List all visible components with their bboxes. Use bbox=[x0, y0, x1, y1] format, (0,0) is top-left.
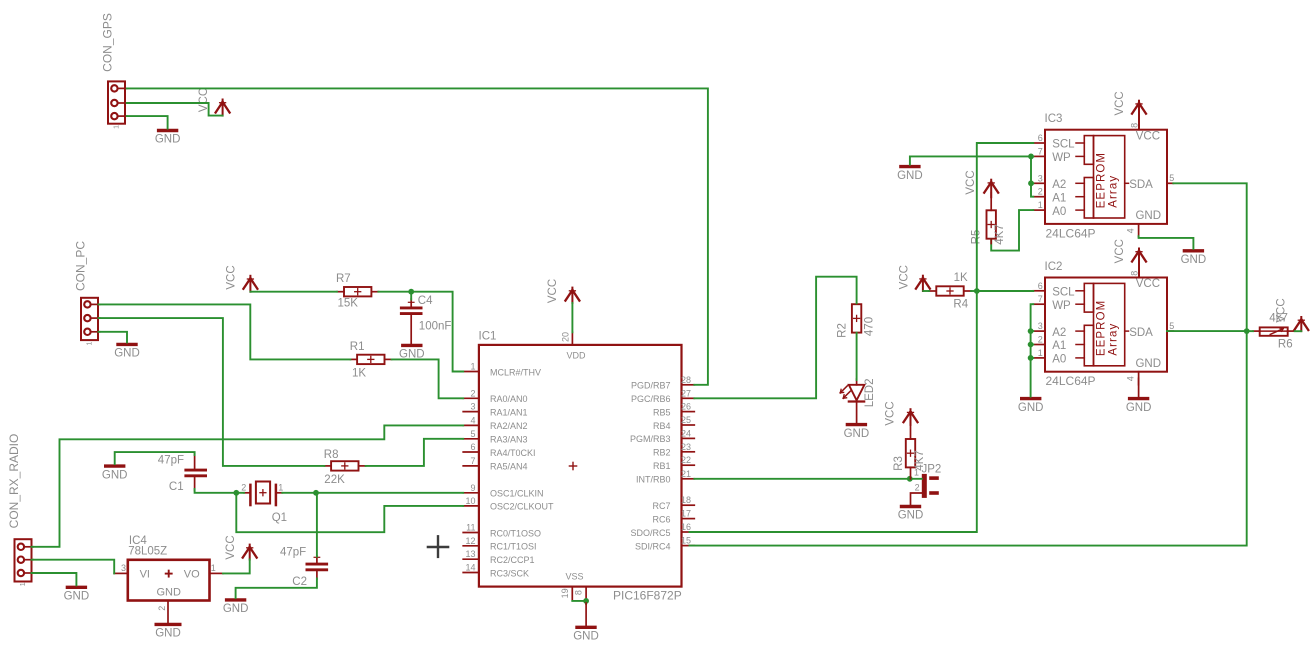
capacitor C2 47pF bbox=[280, 546, 328, 588]
svg-text:1: 1 bbox=[1038, 200, 1043, 210]
svg-text:26: 26 bbox=[681, 402, 691, 412]
svg-text:R2: R2 bbox=[836, 323, 848, 338]
svg-text:RC3/SCK: RC3/SCK bbox=[490, 568, 529, 578]
ground for IC1 VSS bbox=[573, 627, 599, 642]
svg-text:GND: GND bbox=[156, 586, 181, 598]
VCC symbol above R3 bbox=[885, 401, 918, 425]
IC1 pin 23 RB2 bbox=[653, 442, 694, 458]
svg-text:78L05Z: 78L05Z bbox=[128, 546, 167, 558]
node junction SCL/R4 bbox=[974, 288, 980, 294]
svg-text:3: 3 bbox=[1038, 173, 1043, 183]
svg-text:RB4: RB4 bbox=[653, 421, 671, 431]
wire VCC to R7 bbox=[250, 291, 337, 293]
ground for CON_PC pin 3 bbox=[114, 344, 140, 359]
IC1 pin 1 MCLR#/THV bbox=[463, 362, 541, 378]
svg-text:RC0/T1OSO: RC0/T1OSO bbox=[490, 528, 541, 538]
IC2 pin 2 A1 bbox=[1033, 335, 1084, 353]
IC3 pin 6 SCL bbox=[1033, 133, 1084, 151]
IC1 pin 5 RA3/AN3 bbox=[463, 429, 527, 445]
memory IC2 24LC64P body bbox=[1045, 261, 1168, 388]
svg-text:6: 6 bbox=[1038, 133, 1043, 143]
wire R5 bottom stub bbox=[990, 239, 992, 244]
connector CON_RX_RADIO bbox=[7, 434, 33, 587]
wire R6 to VCC bbox=[1295, 330, 1302, 332]
IC3 pin 1 A0 bbox=[1033, 200, 1084, 218]
IC1 pin 28 PGD/RB7 bbox=[631, 375, 694, 391]
svg-text:RA3/AN3: RA3/AN3 bbox=[490, 435, 528, 445]
svg-text:28: 28 bbox=[681, 375, 691, 385]
IC1 pin 17 RC6 bbox=[652, 509, 694, 525]
IC3 pin 4 GND stub bbox=[1126, 224, 1139, 237]
svg-text:PGM/RB3: PGM/RB3 bbox=[630, 434, 671, 444]
IC2 pin 4 GND stub bbox=[1126, 372, 1139, 385]
memory IC3 24LC64P body bbox=[1045, 113, 1168, 240]
wire VCC to R3 top bbox=[910, 422, 912, 439]
svg-text:VCC: VCC bbox=[899, 265, 911, 289]
wire IC1 VSS pins to ground bbox=[572, 598, 589, 626]
svg-text:GND: GND bbox=[114, 348, 140, 360]
capacitor C4 100nF bbox=[400, 295, 452, 343]
IC1 pin 16 SDO/RC5 bbox=[630, 522, 694, 538]
svg-text:16: 16 bbox=[681, 522, 691, 532]
wire R3 bottom to junction bbox=[910, 467, 912, 479]
svg-text:1K: 1K bbox=[352, 368, 366, 380]
svg-text:47pF: 47pF bbox=[280, 546, 306, 558]
wire IC1 PGC/RB6 to R2 bbox=[694, 277, 856, 399]
IC1 pin 15 SDI/RC4 bbox=[635, 536, 694, 552]
svg-text:SDO/RC5: SDO/RC5 bbox=[630, 528, 670, 538]
svg-text:GND: GND bbox=[155, 628, 181, 640]
svg-text:RA2/AN2: RA2/AN2 bbox=[490, 421, 528, 431]
svg-text:VDD: VDD bbox=[567, 350, 587, 360]
svg-text:RC6: RC6 bbox=[652, 514, 670, 524]
IC1 pin 11 RC0/T1OSO bbox=[463, 523, 541, 539]
ground for C1 bbox=[102, 466, 128, 481]
wire IC3 WP to ground bbox=[910, 156, 1033, 164]
ground for IC4 pin 2 bbox=[155, 624, 182, 639]
wire CON_PC pin 1 to R1 bbox=[99, 304, 351, 359]
wire Q1 left to IC1 OSC2/CLKOUT bbox=[236, 493, 463, 532]
svg-text:22: 22 bbox=[681, 455, 691, 465]
capacitor C1 47pF bbox=[158, 454, 207, 493]
svg-text:470: 470 bbox=[863, 317, 875, 336]
IC1 pin 2 RA0/AN0 bbox=[463, 388, 527, 404]
svg-text:24LC64P: 24LC64P bbox=[1046, 374, 1096, 388]
svg-text:SCL: SCL bbox=[1052, 287, 1075, 299]
wire R4 to junction bbox=[971, 290, 977, 292]
svg-text:RA5/AN4: RA5/AN4 bbox=[490, 462, 528, 472]
svg-text:20: 20 bbox=[561, 332, 571, 342]
svg-text:17: 17 bbox=[681, 509, 691, 519]
svg-text:2: 2 bbox=[915, 483, 920, 493]
svg-text:GND: GND bbox=[102, 469, 128, 481]
svg-text:7: 7 bbox=[1038, 146, 1043, 156]
svg-text:RC2/CCP1: RC2/CCP1 bbox=[490, 555, 535, 565]
node junction Q1 right bbox=[313, 490, 319, 496]
IC4 pin 3 VI bbox=[114, 563, 128, 573]
svg-text:5: 5 bbox=[1169, 321, 1174, 331]
wire R1 to IC1 RA0/AN0 bbox=[392, 359, 464, 398]
svg-text:GND: GND bbox=[897, 170, 923, 182]
node junction IC3 WP/A2 bbox=[1028, 154, 1034, 160]
svg-text:RB5: RB5 bbox=[653, 407, 671, 417]
svg-text:1: 1 bbox=[278, 482, 283, 492]
IC3 pin 3 A2 bbox=[1033, 173, 1084, 191]
IC1 pin 18 RC7 bbox=[652, 495, 694, 511]
IC3 pin 2 A1 bbox=[1033, 187, 1084, 205]
resistor R2 470 bbox=[836, 304, 875, 338]
IC1 pin 8 VSS stub bbox=[573, 587, 586, 601]
svg-text:Array: Array bbox=[1107, 175, 1119, 208]
svg-text:2: 2 bbox=[1038, 335, 1043, 345]
svg-text:15K: 15K bbox=[338, 298, 359, 310]
wire VCC to R5 top bbox=[990, 193, 992, 211]
svg-text:R6: R6 bbox=[1278, 338, 1293, 350]
svg-text:RA4/T0CKI: RA4/T0CKI bbox=[490, 448, 536, 458]
svg-text:R7: R7 bbox=[336, 273, 351, 285]
ground for IC3 pin 4 bbox=[1181, 251, 1207, 266]
svg-text:VCC: VCC bbox=[547, 279, 559, 303]
svg-text:13: 13 bbox=[465, 549, 475, 559]
wire CON_GPS pin 2 to VCC bbox=[127, 103, 223, 116]
svg-text:R8: R8 bbox=[324, 449, 339, 461]
IC1 pin 19 VSS stub bbox=[560, 587, 573, 601]
svg-text:VCC: VCC bbox=[1136, 130, 1160, 142]
svg-text:6: 6 bbox=[470, 442, 475, 452]
svg-text:OSC1/CLKIN: OSC1/CLKIN bbox=[490, 489, 544, 499]
IC4 pin 2 GND bbox=[157, 601, 168, 623]
wire VCC to R4 bbox=[923, 290, 929, 292]
svg-text:GND: GND bbox=[1135, 358, 1161, 370]
wire R7 to IC1 MCLR bbox=[378, 292, 463, 372]
svg-text:24LC64P: 24LC64P bbox=[1046, 227, 1096, 241]
wire SCL bus to IC2 SCL bbox=[977, 290, 1034, 292]
svg-text:25: 25 bbox=[681, 415, 691, 425]
wire JP2 pin 2 to ground bbox=[911, 493, 922, 505]
svg-text:GND: GND bbox=[573, 631, 599, 643]
svg-text:R4: R4 bbox=[953, 299, 968, 311]
svg-text:WP: WP bbox=[1052, 152, 1071, 164]
ground for IC2 address pins bbox=[1018, 399, 1044, 414]
wire IC1 VDD to VCC arrow bbox=[571, 303, 573, 332]
svg-text:IC3: IC3 bbox=[1045, 113, 1063, 125]
wire IC2 SDA to bus bbox=[1167, 330, 1247, 332]
svg-text:4K7: 4K7 bbox=[994, 224, 1006, 244]
IC2 pin 8 VCC stub bbox=[1130, 268, 1140, 278]
node junction R3/JP2 bbox=[907, 476, 913, 482]
VCC arrow for IC3 pin 8 bbox=[1114, 91, 1146, 129]
svg-text:4: 4 bbox=[1126, 376, 1136, 381]
IC1 pin 4 RA2/AN2 bbox=[463, 415, 527, 431]
VCC symbol near R7 bbox=[225, 265, 257, 291]
svg-text:2: 2 bbox=[1038, 187, 1043, 197]
wire CON_GPS pin 1 to IC1 PGD/RB7 bbox=[127, 88, 708, 384]
svg-text:10: 10 bbox=[465, 496, 475, 506]
wire CON_RX_RADIO pin 2 to IC4 VI bbox=[32, 560, 115, 574]
svg-text:VI: VI bbox=[140, 568, 150, 580]
svg-text:5: 5 bbox=[1169, 173, 1174, 183]
svg-text:GND: GND bbox=[1135, 210, 1161, 222]
IC1 pin 26 RB5 bbox=[653, 402, 694, 418]
node junction IC2 A2 bbox=[1028, 328, 1034, 334]
IC1 pin 9 OSC1/CLKIN bbox=[463, 483, 543, 499]
wire CON_RX_RADIO pin 3 to ground bbox=[32, 573, 77, 585]
IC2 pin 7 WP bbox=[1033, 294, 1084, 312]
svg-text:VCC: VCC bbox=[225, 265, 237, 289]
svg-text:14: 14 bbox=[465, 563, 475, 573]
jumper JP2 bbox=[914, 463, 941, 498]
svg-text:R1: R1 bbox=[350, 341, 365, 353]
IC1 pin 7 RA5/AN4 bbox=[463, 456, 527, 472]
IC1 pin 27 PGC/RB6 bbox=[631, 388, 694, 404]
svg-text:9: 9 bbox=[470, 483, 475, 493]
svg-text:IC2: IC2 bbox=[1045, 261, 1063, 273]
node junction SDA/IC2 bbox=[1244, 328, 1250, 334]
VCC symbol near R6 bbox=[1275, 298, 1308, 331]
svg-text:R3: R3 bbox=[893, 456, 905, 471]
IC1 pin 14 RC3/SCK bbox=[463, 563, 529, 579]
wire CON_PC pin 2 to R8 bbox=[99, 318, 325, 466]
ground for LED2 bbox=[844, 425, 870, 440]
VCC symbol near R4 bbox=[899, 265, 930, 291]
svg-text:GND: GND bbox=[155, 134, 181, 146]
node junction Q1 left bbox=[233, 490, 239, 496]
svg-text:23: 23 bbox=[681, 442, 691, 452]
wire bus to R6 bbox=[1247, 330, 1253, 332]
svg-text:C2: C2 bbox=[292, 576, 307, 588]
svg-text:1K: 1K bbox=[954, 272, 968, 284]
VCC symbol above R5 bbox=[965, 170, 998, 197]
svg-text:7: 7 bbox=[470, 456, 475, 466]
wire C2 to ground bbox=[236, 579, 317, 599]
wire IC4 VO to VCC bbox=[223, 560, 250, 574]
svg-text:18: 18 bbox=[681, 495, 691, 505]
svg-text:JP2: JP2 bbox=[922, 463, 942, 475]
svg-text:Q1: Q1 bbox=[272, 512, 287, 524]
svg-text:5: 5 bbox=[470, 429, 475, 439]
wire IC1 INT/RB0 to JP2 pin 1 bbox=[694, 478, 922, 480]
IC3 EEPROM array symbol bbox=[1084, 136, 1124, 218]
node junction IC3 A2 bbox=[1028, 180, 1034, 186]
wire IC3 WP junction to A2 and A1 bbox=[1031, 156, 1033, 196]
svg-text:VCC: VCC bbox=[1114, 91, 1126, 115]
wire Q1 to IC1 OSC1/CLKIN bbox=[282, 492, 463, 494]
svg-text:PIC16F872P: PIC16F872P bbox=[613, 589, 682, 603]
IC1 pin 13 RC2/CCP1 bbox=[463, 549, 534, 565]
svg-text:6: 6 bbox=[1038, 281, 1043, 291]
svg-text:1: 1 bbox=[211, 563, 216, 573]
IC4 pin 1 VO bbox=[210, 563, 224, 573]
svg-text:1: 1 bbox=[20, 582, 27, 586]
svg-text:SDA: SDA bbox=[1129, 179, 1153, 191]
svg-text:LED2: LED2 bbox=[864, 379, 876, 408]
svg-text:4: 4 bbox=[470, 415, 475, 425]
svg-text:C4: C4 bbox=[418, 295, 433, 307]
svg-text:15: 15 bbox=[681, 536, 691, 546]
svg-text:21: 21 bbox=[681, 469, 691, 479]
LED LED2 bbox=[840, 379, 876, 423]
svg-text:VCC: VCC bbox=[885, 401, 897, 425]
IC2 pin 5 SDA bbox=[1125, 321, 1175, 339]
svg-text:7: 7 bbox=[1038, 294, 1043, 304]
svg-text:A0: A0 bbox=[1052, 354, 1066, 366]
svg-text:1: 1 bbox=[470, 362, 475, 372]
wire CON_RX_RADIO pin 1 to IC1 RA2/AN2 bbox=[32, 425, 464, 546]
svg-text:22K: 22K bbox=[324, 474, 345, 486]
svg-text:IC1: IC1 bbox=[479, 331, 497, 343]
svg-text:OSC2/CLKOUT: OSC2/CLKOUT bbox=[490, 502, 554, 512]
wire IC1 SDO/RC5 to SCL bus bbox=[690, 143, 1034, 532]
svg-text:47pF: 47pF bbox=[158, 455, 184, 467]
svg-text:WP: WP bbox=[1052, 300, 1071, 312]
svg-text:VO: VO bbox=[184, 568, 200, 580]
IC2 EEPROM array symbol bbox=[1084, 283, 1124, 365]
svg-text:RA0/AN0: RA0/AN0 bbox=[490, 394, 528, 404]
svg-text:1: 1 bbox=[114, 125, 121, 129]
svg-text:24: 24 bbox=[681, 428, 691, 438]
ground for JP2 pin 2 bbox=[898, 507, 924, 522]
svg-text:2: 2 bbox=[241, 482, 246, 492]
svg-text:RA1/AN1: RA1/AN1 bbox=[490, 407, 528, 417]
crystal Q1 bbox=[241, 482, 287, 525]
VCC arrow for IC2 pin 8 bbox=[1114, 239, 1146, 277]
svg-text:CON_RX_RADIO: CON_RX_RADIO bbox=[7, 434, 21, 529]
svg-text:8: 8 bbox=[573, 590, 583, 595]
IC1 pin 22 RB1 bbox=[653, 455, 694, 471]
svg-text:CON_GPS: CON_GPS bbox=[101, 13, 115, 72]
IC1 pin 25 RB4 bbox=[653, 415, 694, 431]
resistor R8 22K bbox=[324, 449, 366, 486]
IC1 pin 12 RC1/T1OSI bbox=[463, 536, 536, 552]
ground for IC2 pin 4 bbox=[1126, 399, 1152, 414]
svg-text:A2: A2 bbox=[1052, 179, 1066, 191]
ground for C2 bbox=[223, 600, 249, 615]
VCC symbol near IC4 bbox=[225, 535, 257, 559]
svg-text:CON_PC: CON_PC bbox=[74, 241, 88, 291]
IC1 pin 6 RA4/T0CKI bbox=[463, 442, 535, 458]
wire IC1 SDI/RC4 to SDA bus bbox=[690, 183, 1247, 545]
VCC symbol for IC1 VDD bbox=[547, 279, 580, 303]
svg-text:RB2: RB2 bbox=[653, 448, 671, 458]
IC3 pin 8 VCC stub bbox=[1130, 120, 1140, 130]
svg-text:1: 1 bbox=[914, 468, 919, 478]
IC3 pin 7 WP bbox=[1033, 146, 1084, 164]
svg-text:RC7: RC7 bbox=[652, 501, 670, 511]
IC3 pin 5 SDA bbox=[1125, 173, 1175, 191]
svg-text:EEPROM: EEPROM bbox=[1096, 300, 1108, 356]
svg-text:EEPROM: EEPROM bbox=[1096, 152, 1108, 208]
svg-text:SCL: SCL bbox=[1052, 139, 1075, 151]
svg-text:2: 2 bbox=[470, 388, 475, 398]
wire C1 to crystal Q1 bbox=[195, 489, 244, 493]
svg-text:A2: A2 bbox=[1052, 327, 1066, 339]
svg-text:RB1: RB1 bbox=[653, 461, 671, 471]
svg-text:19: 19 bbox=[560, 588, 570, 598]
resistor R1 1K bbox=[350, 341, 392, 380]
ground for CON_RX_RADIO pin 3 bbox=[64, 587, 90, 602]
svg-text:MCLR#/THV: MCLR#/THV bbox=[490, 367, 541, 377]
svg-text:GND: GND bbox=[898, 510, 924, 522]
wire ground to C1 top bbox=[115, 452, 195, 464]
node junction IC2 A0 bbox=[1028, 355, 1034, 361]
svg-text:11: 11 bbox=[466, 523, 475, 533]
svg-text:3: 3 bbox=[1038, 321, 1043, 331]
svg-text:GND: GND bbox=[1126, 402, 1152, 414]
IC1 pin 3 RA1/AN1 bbox=[463, 402, 527, 418]
ground for C4 bbox=[399, 345, 425, 360]
IC1 pin 20 VDD top stub bbox=[561, 332, 573, 345]
svg-text:PGC/RB6: PGC/RB6 bbox=[631, 394, 671, 404]
IC2 pin 6 SCL bbox=[1033, 281, 1084, 299]
svg-text:A1: A1 bbox=[1052, 340, 1066, 352]
wire IC2 WP to address pins and ground bbox=[1031, 304, 1034, 396]
ground for CON_GPS pin 3 bbox=[155, 131, 181, 146]
svg-text:VCC: VCC bbox=[225, 535, 237, 559]
IC2 pin 3 A2 bbox=[1033, 321, 1084, 339]
svg-text:1: 1 bbox=[1038, 348, 1043, 358]
wire IC2 pin 4 to ground bbox=[1138, 378, 1140, 396]
svg-text:100nF: 100nF bbox=[419, 320, 452, 332]
svg-text:GND: GND bbox=[844, 428, 870, 440]
ground for IC3 WP bbox=[897, 167, 923, 182]
svg-text:27: 27 bbox=[681, 388, 691, 398]
svg-text:RC1/T1OSI: RC1/T1OSI bbox=[490, 542, 537, 552]
wire R8 to IC1 RA3/AN3 bbox=[366, 439, 464, 466]
svg-text:VCC: VCC bbox=[965, 170, 977, 194]
IC1 pin 21 INT/RB0 bbox=[636, 469, 694, 485]
wire CON_GPS pin 3 to ground bbox=[127, 116, 168, 128]
svg-text:2: 2 bbox=[157, 606, 167, 611]
wire Q1 right junction to C2 bbox=[316, 493, 318, 557]
wire junction to C4 bbox=[410, 292, 412, 300]
wire R5 to IC3 A0 bbox=[991, 210, 1033, 251]
VCC symbol near CON_GPS bbox=[198, 88, 230, 116]
svg-text:GND: GND bbox=[1018, 402, 1044, 414]
svg-text:4: 4 bbox=[1126, 228, 1136, 233]
connector CON_GPS bbox=[101, 13, 127, 129]
IC1 pin 10 OSC2/CLKOUT bbox=[463, 496, 554, 512]
regulator IC4 78L05Z body bbox=[128, 535, 210, 601]
resistor R4 1K bbox=[929, 272, 971, 311]
svg-text:1: 1 bbox=[87, 341, 94, 345]
resistor R3 4K7 bbox=[893, 439, 926, 471]
svg-text:SDI/RC4: SDI/RC4 bbox=[635, 541, 671, 551]
wire IC3 pin 4 to ground bbox=[1139, 236, 1194, 249]
IC2 pin 1 A0 bbox=[1033, 348, 1084, 366]
svg-text:GND: GND bbox=[64, 591, 90, 603]
svg-text:3: 3 bbox=[470, 402, 475, 412]
svg-text:VCC: VCC bbox=[1136, 278, 1160, 290]
node junction IC2 A1 bbox=[1028, 342, 1034, 348]
svg-text:A0: A0 bbox=[1052, 206, 1066, 218]
svg-text:VCC: VCC bbox=[1275, 298, 1287, 322]
svg-text:GND: GND bbox=[1181, 254, 1207, 266]
svg-text:3: 3 bbox=[121, 563, 126, 573]
svg-text:VSS: VSS bbox=[566, 572, 584, 582]
svg-text:VCC: VCC bbox=[1114, 239, 1126, 263]
svg-text:GND: GND bbox=[223, 603, 249, 615]
svg-text:C1: C1 bbox=[169, 481, 184, 493]
svg-text:SDA: SDA bbox=[1129, 327, 1153, 339]
resistor R6 4k7 bbox=[1253, 313, 1295, 351]
resistor R5 4K7 bbox=[970, 210, 1006, 244]
sheet origin cross bbox=[428, 536, 448, 557]
node junction R7/C4 bbox=[408, 289, 414, 295]
svg-text:Array: Array bbox=[1107, 323, 1119, 356]
svg-text:PGD/RB7: PGD/RB7 bbox=[631, 381, 671, 391]
wire R2 to LED2 bbox=[856, 333, 858, 380]
wire CON_PC pin 3 to ground bbox=[99, 332, 128, 343]
